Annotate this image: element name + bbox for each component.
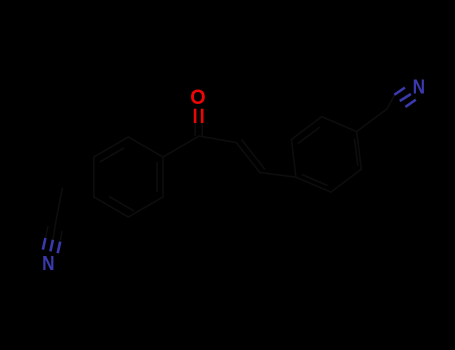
- ring inner double bonds: [100, 148, 157, 211]
- acetonitrile gray stroke continuations: [45, 225, 62, 242]
- right nitrile gray half: [357, 95, 395, 132]
- svg-text:N: N: [413, 76, 425, 99]
- right nitrile triple bond blue strokes: [394, 88, 416, 107]
- svg-text:O: O: [190, 87, 205, 110]
- bond C(=O)-ring: [163, 136, 199, 157]
- svg-text:N: N: [42, 252, 54, 275]
- acetonitrile CH3-C gray bond: [55, 188, 62, 225]
- carbonyl C=O red halves: [195, 109, 202, 123]
- carbonyl C=O gray halves: [195, 123, 202, 137]
- vinyl chain C(=O)-CH=CH-ring: [199, 136, 296, 177]
- left phenyl ring C1-C6: [94, 137, 163, 217]
- acetonitrile triple bond blue strokes: [43, 238, 60, 253]
- right phenyl ring: [291, 117, 361, 192]
